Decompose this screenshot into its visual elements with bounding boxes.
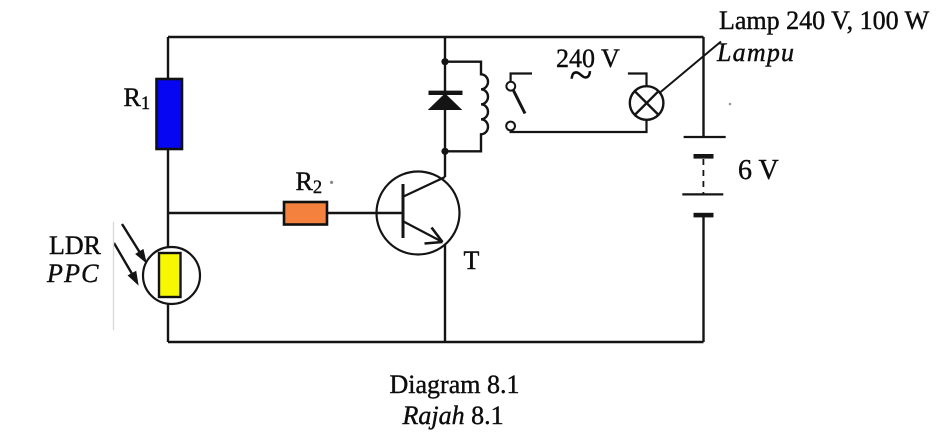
speck near battery: [729, 103, 732, 106]
wire bottom: [168, 341, 704, 343]
speck near R2: [330, 181, 333, 184]
scan artifact line: [113, 222, 115, 330]
wire lamp loop bottom: [511, 120, 647, 133]
resistor R1: [157, 79, 183, 149]
switch top stub: [511, 74, 532, 82]
lamp circle: [630, 86, 664, 120]
node junction dot bottom: [441, 148, 448, 155]
switch contact bottom: [506, 122, 515, 131]
wire left: [167, 37, 169, 342]
transistor T circle: [377, 172, 460, 255]
LDR light arrow 2: [114, 243, 138, 284]
transistor base bar: [402, 184, 405, 238]
transistor emitter arrowhead: [425, 228, 443, 244]
wire lamp stub top: [628, 74, 647, 87]
battery plate short thick top: [694, 154, 714, 159]
label R1: [124, 85, 151, 114]
battery plate long top: [684, 136, 726, 138]
label Lamp 240 V, 100 W: [719, 8, 929, 34]
LDR light arrow 1: [122, 224, 146, 262]
wire right lower: [702, 217, 704, 342]
resistor R2: [284, 202, 327, 225]
label 240 V: [556, 46, 620, 72]
wire middle vertical upper: [444, 37, 446, 177]
switch blade: [513, 90, 525, 114]
label R2: [296, 169, 323, 198]
diode triangle: [429, 94, 461, 110]
label Diagram 8.1: [390, 372, 520, 398]
switch contact top: [506, 82, 515, 91]
wire base left: [168, 212, 284, 214]
LDR PPC circle: [143, 247, 200, 304]
wire top: [168, 36, 704, 38]
battery plate long bottom: [682, 193, 723, 195]
LDR yellow body: [159, 253, 181, 297]
lamp cross: [635, 91, 659, 115]
transistor collector line: [404, 177, 446, 197]
lamp pointer line: [660, 42, 721, 93]
label ~: [570, 55, 593, 97]
node junction dot top: [441, 58, 448, 65]
diode cathode bar: [429, 91, 463, 95]
label LDR: [49, 233, 101, 259]
wire middle vertical lower: [444, 244, 446, 342]
label Lampu: [717, 40, 795, 66]
wire base right: [327, 212, 403, 214]
battery dashed link: [702, 159, 704, 194]
transistor emitter line: [404, 222, 443, 243]
battery plate short thick bottom: [694, 213, 714, 218]
label PPC: [47, 261, 100, 287]
label 6 V: [738, 157, 779, 185]
label Rajah 8.1: [403, 403, 504, 429]
label T: [464, 248, 480, 274]
wire right upper: [702, 37, 704, 137]
relay coil: [445, 62, 488, 152]
